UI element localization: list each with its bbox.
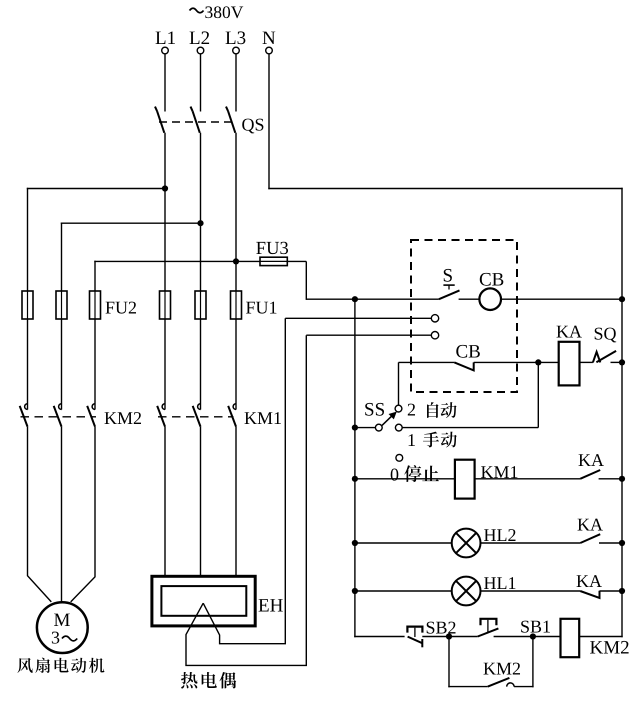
- node left rail SS row: [352, 425, 358, 431]
- wire selfhold bottom left: [448, 686, 488, 688]
- KM2 linkage dashed: [21, 416, 97, 418]
- svg-text:2: 2: [407, 400, 416, 420]
- wire branch1 horizontal: [27, 188, 165, 190]
- wire selfhold left drop: [448, 637, 450, 688]
- relay coil KA: [559, 342, 580, 386]
- wire KA to rail row KM1: [599, 478, 622, 480]
- motor M circle: [37, 602, 88, 653]
- wire lower thermocouple lead: [306, 334, 431, 336]
- contactor coil KM1: [455, 460, 475, 499]
- svg-text:FU1: FU1: [246, 298, 278, 318]
- node right rail KA row: [619, 359, 625, 365]
- wire control top row left: [306, 298, 439, 300]
- wire L2 drop: [200, 54, 202, 112]
- wire pos1 to node: [402, 427, 538, 429]
- svg-text:FU2: FU2: [105, 298, 137, 318]
- node right rail HL1 row: [619, 588, 625, 594]
- svg-text:L2: L2: [189, 28, 210, 49]
- heater EH inner box: [161, 586, 246, 616]
- wire rail to HL1: [355, 590, 452, 592]
- wire KM1 coil to KA contact: [475, 478, 581, 480]
- wire rail to HL2: [355, 542, 452, 544]
- svg-text:EH: EH: [258, 596, 284, 617]
- svg-text:N: N: [262, 28, 276, 49]
- KM1 linkage dashed: [158, 416, 234, 418]
- svg-text:KM2: KM2: [104, 408, 142, 428]
- wire N drop: [268, 54, 270, 189]
- disconnect switch QS pole 3: [226, 107, 235, 133]
- wire L1 feeder: [164, 133, 166, 291]
- lamp HL2: [452, 529, 481, 558]
- wire node to KA coil: [538, 361, 558, 363]
- label thermocouple (Chinese): [181, 672, 198, 689]
- contactor KM1 main contact pole 2: [200, 319, 202, 410]
- wire L1 drop: [164, 54, 166, 112]
- svg-text:QS: QS: [242, 115, 265, 135]
- svg-text:FU3: FU3: [256, 239, 289, 259]
- dashed enclosure (temperature controller): [411, 240, 517, 392]
- wire FU3 out: [287, 260, 306, 262]
- svg-text:SQ: SQ: [594, 324, 617, 344]
- wire upper thermocouple lead: [285, 317, 431, 319]
- wire to FU3: [236, 260, 260, 262]
- wire EH phase 3: [235, 427, 237, 577]
- svg-text:CB: CB: [456, 342, 481, 363]
- node SB2/KM2: [446, 633, 452, 639]
- disconnect switch QS pole 2: [191, 107, 200, 133]
- fuse FU3: [260, 257, 287, 265]
- svg-text:SB2: SB2: [426, 618, 457, 638]
- svg-text:SS: SS: [364, 400, 385, 421]
- node SB1/KM2: [530, 633, 536, 639]
- svg-text:1: 1: [407, 430, 416, 450]
- wire branch1 drop: [27, 188, 29, 291]
- wire N horizontal: [268, 188, 622, 190]
- svg-text:KA: KA: [576, 571, 602, 591]
- wire branch3 drop: [94, 261, 96, 291]
- contactor KM2 main contact pole 1: [27, 319, 29, 410]
- wire HL2 to KA: [481, 542, 581, 544]
- thermocouple left lead: [186, 335, 306, 665]
- fuse FU2 pole 2: [56, 291, 67, 319]
- pushbutton SB1 actuator: [481, 619, 497, 625]
- node right rail HL2 row: [619, 540, 625, 546]
- svg-text:L1: L1: [155, 28, 176, 49]
- selector SS common: [375, 424, 382, 431]
- wire S to CB: [459, 298, 480, 300]
- node right rail top: [619, 296, 625, 302]
- wire motor phase 1: [28, 427, 52, 602]
- terminal L2: [197, 47, 204, 54]
- node L2 branch: [197, 220, 203, 226]
- fuse FU1 pole 2: [195, 291, 206, 319]
- pushbutton SB2 (NC) blade: [408, 637, 423, 644]
- selector SS position 2: [395, 405, 402, 412]
- wire branch2 horizontal: [61, 222, 201, 224]
- node right rail KM1 row: [619, 476, 625, 482]
- wire rail to SS common: [355, 427, 376, 429]
- svg-text:S: S: [443, 266, 454, 287]
- wire branch2 drop: [61, 223, 63, 292]
- wire CB contact to node: [474, 361, 539, 363]
- wire L3 drop: [235, 54, 237, 112]
- relay contact KA (NO) row HL2: [580, 534, 600, 543]
- svg-text:0: 0: [390, 465, 399, 485]
- switch S actuator: [443, 284, 454, 286]
- wire bottom row left: [354, 636, 404, 638]
- node L1 branch: [162, 185, 168, 191]
- svg-text:KM2: KM2: [483, 659, 521, 679]
- wire KA to rail row HL2: [599, 542, 622, 544]
- node CB/KA: [535, 359, 541, 365]
- QS linkage dashed: [159, 121, 236, 123]
- wire selfhold right rise: [532, 637, 534, 688]
- node left rail KM1 row: [352, 476, 358, 482]
- wire motor phase 3: [71, 427, 95, 602]
- wire KM2 coil to rail: [579, 636, 623, 638]
- svg-text:KA: KA: [556, 322, 582, 342]
- fuse FU1 pole 3: [231, 291, 242, 319]
- disconnect switch QS pole 1: [155, 107, 164, 133]
- wire SB2 to node: [422, 636, 449, 638]
- node left rail HL1 row: [352, 588, 358, 594]
- svg-text:3: 3: [51, 628, 60, 648]
- svg-text:CB: CB: [479, 270, 504, 291]
- contactor coil KM2: [561, 619, 580, 657]
- svg-text:KA: KA: [578, 450, 604, 470]
- terminal upper: [431, 315, 438, 322]
- heater EH outer box: [152, 576, 255, 626]
- svg-text:SB1: SB1: [520, 617, 551, 637]
- label fan motor (Chinese): [17, 658, 32, 673]
- relay contact KA (NO) row KM1: [580, 470, 600, 479]
- selector SS arrow: [382, 415, 393, 425]
- wire node to KM2 coil: [533, 636, 561, 638]
- selector SS position 0: [396, 454, 403, 461]
- svg-text:380V: 380V: [205, 2, 244, 22]
- terminal L3: [233, 47, 240, 54]
- fuse FU2 pole 1: [22, 291, 33, 319]
- thermocouple right lead: [203, 318, 285, 643]
- wire control left rail: [354, 299, 356, 637]
- relay contact KA (NC) row HL1: [580, 591, 599, 598]
- wire HL1 to KA: [481, 590, 581, 592]
- KM2 contact arc: [507, 683, 514, 687]
- terminal lower: [431, 332, 438, 339]
- wire EH phase 2: [200, 427, 202, 577]
- switch S blade: [439, 290, 460, 299]
- wire right rail: [621, 188, 623, 637]
- wire KA coil to SQ: [580, 361, 593, 363]
- contactor KM2 main contact pole 2: [61, 319, 63, 410]
- svg-text:KM1: KM1: [244, 408, 282, 428]
- svg-text:KA: KA: [577, 515, 603, 535]
- terminal L1: [162, 47, 169, 54]
- supply label ~380V: [190, 8, 204, 13]
- selector SS position 1: [395, 424, 402, 431]
- svg-text:L3: L3: [225, 28, 246, 49]
- lamp HL1: [452, 577, 481, 606]
- svg-text:KM2: KM2: [590, 638, 630, 659]
- pushbutton SB2 actuator: [407, 627, 422, 633]
- wire motor phase 2: [61, 427, 63, 603]
- wire SQ to rail: [611, 361, 623, 363]
- pushbutton SB1 (NO) blade: [478, 628, 499, 636]
- contactor KM1 main contact pole 1: [164, 319, 166, 410]
- wire EH phase 1: [164, 427, 166, 577]
- wire rail to KM1 coil: [355, 478, 455, 480]
- contactor contact KM2 (NO selfhold): [488, 678, 510, 687]
- node left rail HL2 row: [352, 540, 358, 546]
- wire CB to right rail: [501, 298, 622, 300]
- wire L2 feeder: [200, 133, 202, 291]
- wire from SS pos2 up: [398, 362, 400, 405]
- breaker coil CB circle: [479, 288, 501, 310]
- contactor KM1 main contact pole 3: [235, 319, 237, 410]
- breaker contact CB (NC): [454, 362, 473, 370]
- fuse FU1 pole 1: [160, 291, 171, 319]
- node L3 branch: [233, 258, 239, 264]
- wire CB row left: [399, 361, 455, 363]
- svg-text:HL2: HL2: [484, 525, 517, 545]
- wire KA to rail row HL1: [600, 590, 623, 592]
- limit switch SQ: [593, 351, 616, 363]
- wire branch3 horizontal: [94, 260, 236, 262]
- fuse FU2 pole 3: [90, 291, 101, 319]
- wire node down to manual row: [537, 362, 539, 427]
- wire SB1 to node: [494, 636, 533, 638]
- node control left rail top: [352, 296, 358, 302]
- wire L3 feeder: [235, 133, 237, 291]
- contactor KM2 main contact pole 3: [94, 319, 96, 410]
- wire node to SB1: [449, 636, 478, 638]
- wire selfhold bottom right: [514, 686, 534, 688]
- terminal N: [266, 47, 273, 54]
- svg-text:HL1: HL1: [484, 573, 517, 593]
